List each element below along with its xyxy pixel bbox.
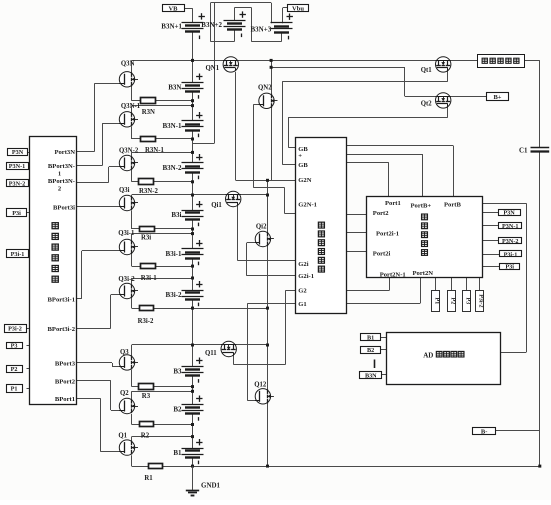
wire gate Qi1 to G2i [237, 202, 239, 260]
transistor Q3i-2 [119, 283, 138, 298]
svg-text:R3N-1: R3N-1 [145, 147, 164, 154]
svg-text:Q3N: Q3N [121, 60, 135, 67]
switch box vertical title (switch drive unit) [318, 222, 324, 228]
svg-text:Vbu: Vbu [292, 5, 304, 12]
svg-text:VB: VB [168, 6, 178, 13]
svg-text:BPort3: BPort3 [55, 361, 76, 368]
node Vbu [288, 5, 309, 13]
node P3N-2 right [499, 238, 522, 246]
resistor R3i-1 [141, 264, 156, 269]
node B2 in [361, 347, 381, 355]
svg-text:P3i-1: P3i-1 [504, 251, 518, 258]
battery B3N+1 [182, 23, 204, 32]
resistor R3N-2 [139, 179, 154, 185]
svg-text:B3i-1: B3i-1 [166, 250, 182, 258]
node P3N-1 left [7, 163, 29, 171]
wire AD box label stubs [380, 337, 386, 339]
node P3i right [500, 263, 520, 270]
node P1 left [7, 385, 23, 393]
svg-text:P3N-2: P3N-2 [9, 180, 26, 187]
wire mid vertical QN2 drain/source [271, 67, 273, 180]
svg-text:B-: B- [481, 428, 488, 435]
svg-text:Q3N-1: Q3N-1 [121, 103, 141, 110]
ellipsis between B2 and B3N [374, 360, 376, 369]
resistor R1 [149, 464, 163, 469]
transistor QN1 [223, 57, 238, 72]
svg-text:PortB+: PortB+ [411, 202, 432, 209]
battery B3N-1 [182, 121, 204, 131]
svg-text:R3i-1: R3i-1 [141, 275, 157, 282]
wire gate Q12 to G1 [247, 400, 255, 402]
svg-text:G2: G2 [298, 288, 307, 295]
plus marks [199, 16, 205, 18]
transistor Q3i [119, 195, 138, 210]
svg-text:C1: C1 [519, 147, 528, 155]
svg-text:P3i-2: P3i-2 [477, 294, 483, 307]
svg-text:Qi1: Qi1 [211, 202, 222, 209]
wire rail row1 (Q3N drain - QN1 - Qt1 - hall) [132, 60, 478, 62]
svg-text:Port2i-1: Port2i-1 [376, 230, 399, 237]
svg-text:P3i: P3i [12, 210, 21, 217]
svg-text:B2: B2 [367, 347, 374, 354]
junction dots [191, 59, 194, 62]
svg-text:B3N-2: B3N-2 [162, 164, 182, 172]
battery B3 [182, 367, 204, 376]
svg-text:Qt2: Qt2 [421, 101, 433, 108]
svg-text:QN1: QN1 [206, 65, 220, 72]
battery B3N+3 [271, 23, 293, 33]
transistor Q3i-1 [119, 239, 138, 254]
MCU vertical title (single chip unit) [422, 214, 428, 220]
battery B1 [182, 449, 204, 458]
svg-text:Q11: Q11 [205, 350, 217, 357]
left box vertical title (passive balance drive) [52, 223, 58, 229]
resistor R3i [140, 227, 155, 232]
wire gate Qt1 to GB [447, 68, 449, 82]
AD sampling unit box [387, 333, 501, 385]
wire VB to bus [184, 8, 193, 10]
wire gate Qt2 to GB+ [447, 104, 449, 117]
svg-text:Q12: Q12 [254, 381, 267, 388]
wire rail row2 (Q3i drain - Qi1) [132, 194, 268, 196]
transistor Qt1 [436, 57, 451, 72]
svg-text:Port1: Port1 [385, 200, 401, 207]
svg-text:G1: G1 [298, 301, 306, 308]
node P3 out [463, 291, 471, 312]
svg-text:BPort3N-: BPort3N- [48, 163, 75, 170]
wire top loop outer [210, 2, 271, 4]
svg-text:P1: P1 [433, 298, 439, 305]
wire gate QN1 to G2N [235, 72, 237, 180]
svg-text:Port2N: Port2N [413, 270, 434, 277]
ground GND1 [186, 466, 199, 495]
node P3i-1 right [500, 251, 522, 259]
wire gate Qi2 to G2i-1 [247, 242, 256, 244]
battery B3i-2 [182, 291, 204, 300]
svg-text:R1: R1 [144, 475, 153, 482]
svg-text:Q3N-2: Q3N-2 [119, 148, 139, 155]
battery B3N-2 [182, 163, 204, 173]
svg-text:G2i: G2i [298, 261, 308, 268]
svg-text:Q3i-2: Q3i-2 [118, 276, 135, 283]
transistor Q1 [119, 440, 138, 455]
transistor Q3N [119, 72, 138, 87]
node P1 out [432, 291, 440, 312]
wire rail row3 (Q3 drain - Q11) [132, 344, 268, 346]
battery B3i [182, 211, 204, 220]
svg-text:+: + [298, 153, 302, 160]
node B+ [487, 93, 509, 101]
svg-text:Q3i-1: Q3i-1 [118, 230, 135, 237]
resistor R3N [141, 98, 156, 104]
node B1 in [361, 334, 381, 342]
svg-text:P3N-2: P3N-2 [502, 238, 519, 245]
resistor R2 [140, 422, 154, 427]
wire switchbox to MCU [347, 145, 454, 147]
svg-text:BPort3N-: BPort3N- [48, 178, 75, 185]
battery B3N+2 [224, 21, 246, 30]
transistor Q3 [119, 355, 138, 370]
resistor R3N-1 [141, 137, 156, 142]
svg-text:BPort3i: BPort3i [53, 205, 75, 212]
wire B- to right bus [495, 430, 539, 432]
svg-text:B3: B3 [173, 368, 182, 376]
svg-text:P3N-1: P3N-1 [502, 223, 519, 230]
transistor Q2 [119, 398, 138, 413]
svg-text:G2N: G2N [298, 177, 311, 184]
wire bottom ground rail [132, 466, 540, 468]
battery B3N [182, 83, 204, 92]
node P3N left [8, 149, 28, 157]
svg-text:P3i: P3i [505, 263, 514, 270]
svg-text:Q3: Q3 [120, 349, 129, 356]
node P3N right [499, 210, 521, 217]
svg-text:G2i-1: G2i-1 [298, 273, 314, 280]
svg-text:B3N-1: B3N-1 [162, 122, 182, 130]
svg-text:B1: B1 [367, 335, 374, 342]
svg-text:R3N: R3N [142, 109, 155, 116]
wire mid vertical Qi2/Q12 channel column [267, 180, 269, 466]
node P3i-2 out [476, 291, 484, 312]
svg-text:P3i-2: P3i-2 [8, 326, 22, 333]
resistor R3 [139, 384, 154, 390]
svg-text:Port2N-1: Port2N-1 [380, 272, 406, 279]
svg-text:P2: P2 [449, 298, 455, 305]
wire MCU right side [482, 203, 526, 205]
resistor R3i-2 [140, 306, 154, 311]
svg-text:B3N+2: B3N+2 [201, 21, 222, 29]
battery B3i-1 [182, 249, 204, 259]
svg-text:Qt1: Qt1 [421, 67, 433, 74]
wire rail2 QN2 drain to Qt2 [271, 60, 273, 67]
svg-text:Port2i: Port2i [373, 251, 391, 258]
svg-text:Qi2: Qi2 [256, 223, 267, 230]
transistor Qt2 [436, 93, 451, 108]
svg-text:BPort1: BPort1 [55, 396, 75, 403]
node VB [163, 5, 185, 13]
svg-text:B3N: B3N [168, 84, 181, 92]
svg-text:R2: R2 [141, 433, 150, 440]
MCU unit box [367, 197, 483, 278]
svg-text:GND1: GND1 [201, 481, 221, 489]
svg-text:P3: P3 [11, 343, 18, 350]
wire P label stubs [27, 152, 30, 154]
svg-text:BPort3i-2: BPort3i-2 [48, 326, 76, 333]
transistor QN2 [259, 93, 278, 108]
node P3i-1 left [7, 250, 29, 258]
svg-text:P3N: P3N [503, 210, 515, 217]
svg-text:PortB: PortB [444, 201, 461, 208]
svg-text:R3N-2: R3N-2 [139, 188, 158, 195]
svg-text:P3N-1: P3N-1 [9, 163, 26, 170]
svg-text:G2N-1: G2N-1 [298, 202, 317, 209]
svg-text:B3N: B3N [365, 372, 377, 379]
svg-text:R3i-2: R3i-2 [138, 318, 154, 325]
passive balance drive unit box [30, 137, 77, 405]
svg-text:R3: R3 [142, 393, 151, 400]
transistor Qi1 [226, 191, 241, 206]
wire left mosfet column leads + node lines [131, 60, 133, 73]
wire loop to bus node [214, 3, 216, 143]
wire gate QN2 to G2N-1 [253, 104, 259, 106]
svg-text:GB: GB [298, 162, 308, 169]
svg-text:BPort3i-1: BPort3i-1 [48, 296, 75, 303]
svg-text:R3i: R3i [141, 235, 151, 242]
hall sensor box [478, 55, 525, 68]
node B3N in [360, 372, 382, 380]
svg-text:P3: P3 [465, 298, 471, 305]
svg-text:P2: P2 [11, 366, 18, 373]
svg-text:Q1: Q1 [118, 433, 127, 440]
wire left box pin jogs to gates [76, 151, 95, 153]
transistor Q3N-2 [119, 155, 138, 170]
node P3i left [7, 209, 27, 218]
svg-text:AD: AD [423, 351, 433, 359]
svg-text:P3N: P3N [12, 149, 24, 156]
svg-text:P1: P1 [11, 386, 18, 393]
svg-text:B3i: B3i [171, 211, 181, 219]
svg-text:B3i-2: B3i-2 [166, 291, 182, 299]
svg-text:Q3i: Q3i [119, 187, 130, 194]
svg-text:BPort2: BPort2 [55, 378, 76, 385]
svg-text:P3i-1: P3i-1 [11, 251, 25, 258]
svg-text:1: 1 [58, 170, 61, 177]
svg-text:B2: B2 [173, 406, 182, 414]
node P3 left [7, 343, 23, 350]
node P2 left [7, 366, 23, 373]
transistor Q3N-1 [119, 112, 138, 127]
wire MCU bottom to P boxes [435, 278, 437, 291]
switch drive unit box [296, 138, 347, 314]
transistor Q11 [221, 341, 236, 356]
wire hall sensor to right bus and C1 [525, 60, 540, 62]
node P3N-1 right [499, 223, 522, 230]
transistor Q12 [255, 389, 274, 404]
svg-text:Port3N: Port3N [54, 149, 75, 156]
svg-text:B1: B1 [173, 449, 182, 457]
svg-text:B3N+1: B3N+1 [161, 23, 182, 31]
node P3N-2 left [7, 180, 29, 188]
battery B2 [182, 405, 204, 414]
wire gate Q11 to G2 [233, 352, 235, 364]
svg-text:B+: B+ [493, 94, 501, 101]
minus ticks [199, 36, 201, 40]
node B- [473, 428, 496, 436]
wire B3N+3 plus to Vbu [282, 8, 284, 23]
capacitor C1 [531, 148, 550, 152]
svg-text:Port2: Port2 [373, 210, 389, 217]
svg-text:B3N+3: B3N+3 [251, 26, 272, 34]
node P3i-2 left [5, 325, 27, 333]
wire main battery bus [192, 32, 194, 83]
node P2 out [448, 291, 456, 312]
svg-text:QN2: QN2 [258, 85, 272, 92]
wire top loop inner B3N+2 plus to B3N+3 minus [234, 8, 236, 21]
svg-text:Q2: Q2 [120, 390, 129, 397]
transistor Qi2 [255, 231, 274, 246]
